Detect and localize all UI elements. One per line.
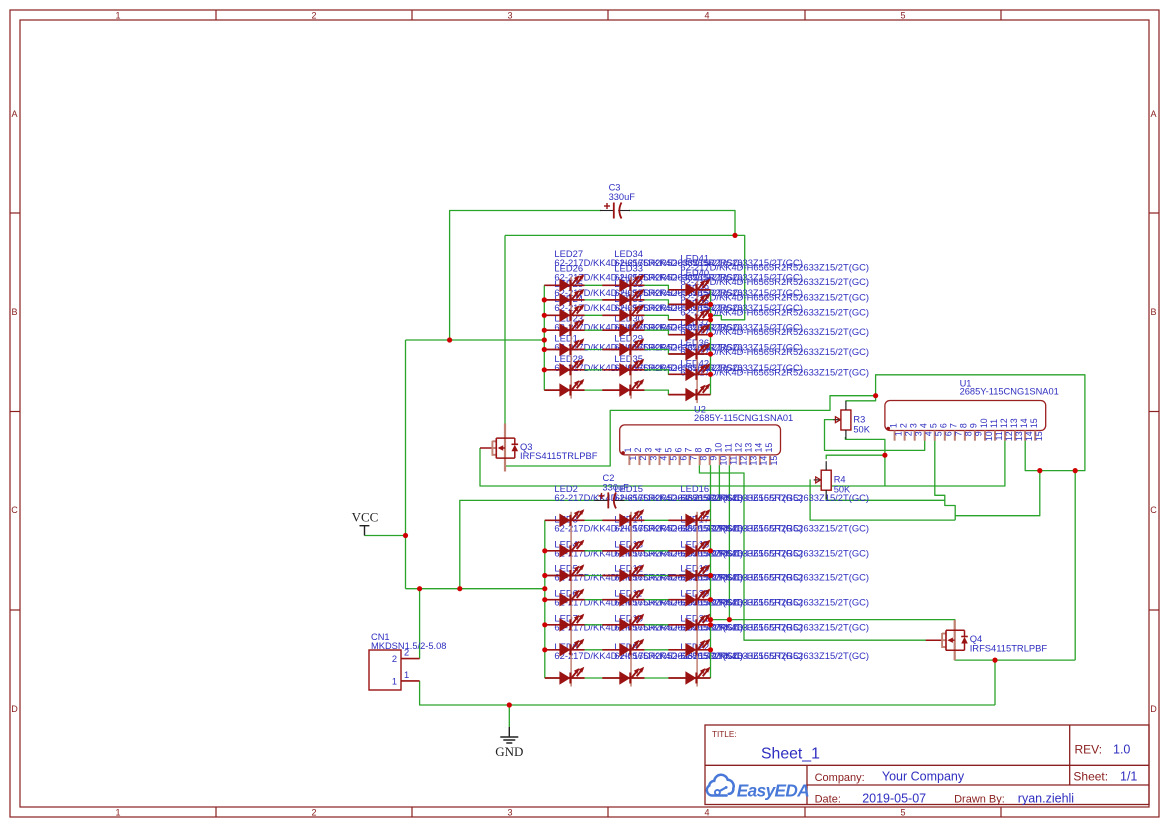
wire C2 right to U2 pin10	[622, 465, 720, 500]
resistor R4 top pin	[825, 461, 827, 470]
wire U1 pin14 rail	[876, 375, 1085, 471]
svg-text:8: 8	[693, 448, 703, 453]
LED pin wire	[668, 575, 710, 577]
LED pin wire	[668, 289, 710, 291]
svg-text:1: 1	[115, 808, 120, 818]
LED LED26 symbol	[559, 289, 584, 307]
svg-text:330uF: 330uF	[603, 483, 630, 493]
connector U2 body	[620, 425, 781, 455]
svg-text:6: 6	[944, 431, 954, 436]
junction top-left bus y=315.3	[542, 313, 547, 318]
pin 3 of U2	[643, 448, 658, 466]
LED pin wire	[602, 677, 644, 679]
frame tick bottom x=216	[215, 807, 217, 817]
svg-text:1: 1	[115, 11, 120, 21]
LED pin wire	[545, 599, 585, 601]
pin 2 of U2	[633, 448, 648, 466]
LED LED8 symbol	[559, 667, 584, 685]
pin 8 of U2	[693, 448, 708, 466]
svg-text:5: 5	[900, 11, 905, 21]
row wire	[545, 624, 711, 626]
wire C3 right to top-right corner	[629, 211, 735, 236]
LED pin wire	[545, 550, 585, 552]
svg-text:7: 7	[683, 448, 693, 453]
LED pin wire	[668, 519, 710, 521]
row wire	[544, 315, 710, 320]
row wire	[545, 677, 711, 679]
LED LED21 symbol	[685, 639, 710, 657]
junction Q4 drain rail at bottom bus	[708, 617, 713, 622]
LED LED5 symbol	[559, 589, 584, 607]
pin 10 of U1	[979, 418, 994, 441]
svg-text:1: 1	[893, 431, 903, 436]
svg-text:11: 11	[994, 431, 1004, 440]
wire C2 left to VCC rail	[460, 500, 599, 588]
LED pin wire	[668, 319, 710, 321]
right cathode bus	[710, 520, 712, 678]
wire R3 top to net	[845, 396, 875, 401]
LED LED31 symbol	[619, 319, 644, 337]
svg-text:ryan.ziehli: ryan.ziehli	[1018, 791, 1074, 805]
svg-text:VCC: VCC	[352, 510, 379, 525]
pin 4 of U1	[919, 423, 934, 441]
svg-text:4: 4	[653, 448, 663, 453]
LED pin wire	[668, 677, 710, 679]
junction top-left bus y=349.5	[542, 347, 547, 352]
LED pin wire	[544, 369, 584, 371]
svg-text:50K: 50K	[834, 485, 851, 495]
svg-text:EasyEDA: EasyEDA	[737, 781, 809, 801]
junction R3 top net	[873, 393, 878, 398]
LED LED22 symbol	[685, 667, 710, 685]
svg-text:Drawn By:: Drawn By:	[954, 793, 1005, 805]
LED LED14 symbol	[619, 540, 644, 558]
LED pin wire	[544, 314, 584, 316]
svg-text:13: 13	[749, 456, 759, 466]
frame tick bottom x=1001	[1000, 807, 1002, 817]
pin 14 of U2	[754, 443, 769, 466]
row wire	[545, 649, 711, 651]
LED LED2 symbol	[559, 509, 584, 527]
LED column pin line	[630, 277, 632, 399]
resistor R4 wiper arrow	[814, 479, 821, 481]
frame tick top x=805	[804, 10, 806, 20]
LED LED23 symbol	[559, 338, 584, 356]
pin 10 of U2	[714, 443, 729, 466]
svg-text:5: 5	[663, 448, 673, 453]
row wire	[545, 519, 711, 521]
frame tick right y=411.5	[1149, 411, 1159, 413]
title block outline	[705, 725, 1149, 805]
svg-text:6: 6	[678, 456, 688, 461]
LED pin wire	[544, 284, 584, 286]
svg-text:GND: GND	[495, 744, 523, 759]
svg-text:9: 9	[709, 456, 719, 461]
wire R3 bottom	[845, 437, 885, 486]
row wire	[544, 285, 710, 290]
svg-text:10: 10	[714, 443, 724, 453]
capacitor C3 pin wires	[600, 210, 613, 212]
LED LED37 symbol	[685, 343, 710, 361]
frame tick left y=411.5	[10, 411, 20, 413]
pin 11 of U1	[989, 419, 1004, 441]
svg-text:12: 12	[999, 418, 1009, 428]
svg-text:2019-05-07: 2019-05-07	[862, 791, 926, 805]
svg-text:3: 3	[507, 808, 512, 818]
connector U1 body	[885, 401, 1046, 431]
svg-text:9: 9	[969, 423, 979, 428]
svg-text:9: 9	[704, 448, 714, 453]
LED LED9 symbol	[619, 667, 644, 685]
svg-text:1: 1	[404, 670, 409, 680]
LED LED1 symbol	[559, 359, 584, 377]
wire CN1 pin1 to GND rail	[420, 681, 995, 705]
junction top-right bus y=354.0	[708, 351, 713, 356]
svg-text:14: 14	[1019, 418, 1029, 428]
LED pin wire	[668, 599, 710, 601]
frame tick top x=216	[215, 10, 217, 20]
LED pin wire	[668, 624, 710, 626]
svg-text:Date:: Date:	[815, 793, 841, 805]
LED LED10 symbol	[619, 639, 644, 657]
pin 5 of U2	[663, 448, 678, 466]
svg-text:15: 15	[1029, 418, 1039, 428]
svg-text:Sheet_1: Sheet_1	[761, 746, 820, 763]
LED pin wire	[602, 284, 644, 286]
svg-text:2: 2	[311, 808, 316, 818]
row wire	[545, 599, 711, 601]
svg-text:7: 7	[688, 456, 698, 461]
frame tick bottom x=805	[804, 807, 806, 817]
svg-text:1: 1	[888, 423, 898, 428]
svg-text:6: 6	[939, 423, 949, 428]
LED pin wire	[602, 519, 644, 521]
LED pin wire	[668, 353, 710, 355]
junction VCC feed at top bus	[542, 337, 547, 342]
LED LED4 symbol	[559, 564, 584, 582]
wire U1 pin5 stair	[935, 440, 955, 520]
svg-text:C3: C3	[609, 183, 621, 193]
svg-text:2: 2	[638, 456, 648, 461]
LED LED34 symbol	[619, 274, 644, 292]
junction bottom-right bus y=599.7	[708, 597, 713, 602]
LED pin wire	[545, 624, 585, 626]
pin 8 of U1	[959, 423, 974, 441]
frame tick bottom x=412	[411, 807, 413, 817]
row wire	[544, 350, 710, 355]
pin 7 of U1	[949, 423, 964, 441]
LED pin wire	[602, 299, 644, 301]
svg-text:13: 13	[1014, 431, 1024, 441]
wire Q3 source to top cathode bus	[505, 396, 876, 466]
wire R3 wiper to U1 pin4	[825, 420, 925, 451]
junction top-right bus y=334.7	[708, 332, 713, 337]
LED LED28 symbol	[559, 379, 584, 397]
wire right GND riser	[1074, 471, 1076, 660]
connector U1 pin1 mark	[887, 427, 891, 431]
row wire	[544, 300, 710, 305]
transistor Q3 symbol	[480, 424, 518, 472]
junction VCC feed at bottom bus	[542, 586, 547, 591]
LED LED25 symbol	[559, 304, 584, 322]
svg-text:11: 11	[724, 443, 734, 452]
LED LED32 symbol	[619, 304, 644, 322]
wire VCC feed to top LED bus	[406, 339, 545, 341]
pin 14 of U1	[1019, 418, 1034, 441]
pin 1 of U1	[888, 423, 903, 441]
svg-text:13: 13	[744, 443, 754, 453]
svg-text:1.0: 1.0	[1113, 742, 1130, 756]
svg-text:R4: R4	[834, 475, 846, 485]
junction bottom-right bus y=624.8	[708, 622, 713, 627]
frame tick top x=412	[411, 10, 413, 20]
pin 13 of U1	[1009, 418, 1024, 441]
wire U2 pin9 / bottom cathode bus upper	[710, 465, 712, 520]
pin 12 of U2	[734, 443, 749, 466]
wire Q4 drain rail	[711, 620, 955, 630]
frame tick top x=608	[607, 10, 609, 20]
junction VCC netflag tap	[403, 533, 408, 538]
wire U2 pin8 to Q4 gate	[699, 465, 941, 640]
svg-text:10: 10	[984, 431, 994, 441]
svg-text:1: 1	[392, 676, 397, 686]
junction CN1 pin2 riser	[417, 586, 422, 591]
LED LED16 symbol	[685, 509, 710, 527]
pin 2 of U1	[898, 423, 913, 441]
resistor R3 top pin	[845, 401, 847, 410]
svg-text:8: 8	[698, 456, 708, 461]
svg-text:A: A	[1150, 109, 1156, 119]
capacitor C3 curved plate	[619, 203, 621, 219]
svg-text:15: 15	[769, 456, 779, 466]
LED column pin line	[696, 281, 698, 403]
LED LED20 symbol	[685, 614, 710, 632]
junction top-right bus y=319.8	[708, 317, 713, 322]
junction C2 left riser	[457, 586, 462, 591]
junction bottom-left bus y=575.5	[542, 573, 547, 578]
LED LED27 symbol	[559, 274, 584, 292]
LED LED19 symbol	[685, 589, 710, 607]
LED LED36 symbol	[685, 363, 710, 381]
svg-text:2: 2	[633, 448, 643, 453]
LED pin wire	[602, 329, 644, 331]
row wire	[544, 370, 710, 375]
pin 13 of U2	[744, 443, 759, 466]
junction bottom-left bus y=624.8	[542, 622, 547, 627]
pin 15 of U1	[1029, 418, 1044, 441]
LED column pin line	[696, 512, 698, 687]
junction Q4 source riser	[1073, 468, 1078, 473]
resistor R3 body	[841, 410, 851, 430]
svg-text:7: 7	[954, 431, 964, 436]
capacitor C3 straight plate	[613, 203, 615, 219]
svg-text:Company:: Company:	[815, 772, 865, 784]
LED pin wire	[545, 649, 585, 651]
svg-text:3: 3	[648, 456, 658, 461]
LED LED39 symbol	[685, 309, 710, 327]
svg-text:MKDSN1.5/2-5.08: MKDSN1.5/2-5.08	[371, 641, 446, 651]
svg-text:D: D	[1150, 704, 1157, 714]
svg-text:Your Company: Your Company	[882, 769, 965, 783]
wire Q3 drain vertical	[504, 235, 506, 423]
wire VCC rail to bottom LED bus	[406, 588, 545, 590]
LED pin wire	[668, 373, 710, 375]
LED LED42 symbol	[685, 383, 710, 401]
svg-text:3: 3	[913, 431, 923, 436]
junction bottom-right bus y=575.5	[708, 573, 713, 578]
pin 15 of U2	[764, 443, 779, 466]
wire U2 pin11 to Q4 drain rail	[728, 465, 730, 619]
svg-text:4: 4	[924, 431, 934, 436]
frame tick left y=213	[10, 212, 20, 214]
row wire	[544, 390, 710, 395]
VCC net flag	[352, 510, 379, 536]
svg-text:8: 8	[959, 423, 969, 428]
frame tick right y=213	[1149, 212, 1159, 214]
svg-text:5: 5	[934, 431, 944, 436]
wire Q3 gate to U1 pin12 net	[480, 440, 1005, 486]
LED LED40 symbol	[685, 293, 710, 311]
LED LED38 symbol	[685, 324, 710, 342]
svg-text:11: 11	[989, 419, 999, 428]
junction bottom-left bus y=599.7	[542, 597, 547, 602]
svg-text:TITLE:: TITLE:	[712, 730, 737, 739]
LED pin wire	[602, 389, 644, 391]
capacitor C3 plus sign	[604, 205, 610, 207]
LED LED33 symbol	[619, 289, 644, 307]
LED pin wire	[545, 677, 585, 679]
LED pin wire	[602, 575, 644, 577]
wire pin5 net to right riser	[955, 471, 1040, 516]
junction bottom-left bus y=550.8	[542, 548, 547, 553]
LED LED11 symbol	[619, 614, 644, 632]
svg-text:C: C	[1150, 505, 1157, 515]
junction R4 top / R3 bottom net	[882, 453, 887, 458]
row wire	[545, 575, 711, 577]
svg-text:4: 4	[658, 456, 668, 461]
junction top-right bus y=304.4	[708, 302, 713, 307]
svg-text:2: 2	[903, 431, 913, 436]
junction top-left bus y=369.8	[542, 367, 547, 372]
wire GND rail right riser	[994, 660, 996, 705]
svg-text:10: 10	[979, 418, 989, 428]
pin 6 of U2	[673, 448, 688, 466]
row wire	[544, 330, 710, 335]
svg-text:8: 8	[964, 431, 974, 436]
junction bottom-right bus y=550.8	[708, 548, 713, 553]
svg-text:2: 2	[898, 423, 908, 428]
LED pin wire	[602, 369, 644, 371]
svg-text:5: 5	[900, 808, 905, 818]
LED LED3 symbol	[559, 540, 584, 558]
resistor R3 bottom pin	[845, 430, 847, 439]
capacitor C2 pin wires	[595, 499, 608, 501]
svg-text:4: 4	[704, 11, 709, 21]
connector CN1 body	[369, 650, 401, 690]
pin 9 of U2	[704, 448, 719, 466]
svg-text:2685Y-115CNG1SNA01: 2685Y-115CNG1SNA01	[694, 413, 793, 423]
GND symbol	[495, 727, 523, 759]
junction U1 pin5 net riser	[1037, 468, 1042, 473]
LED pin wire	[602, 599, 644, 601]
svg-text:1: 1	[628, 456, 638, 461]
svg-text:D: D	[11, 704, 18, 714]
left anode bus	[543, 285, 545, 390]
LED LED15 symbol	[619, 509, 644, 527]
wire R4 bottom rail	[826, 496, 945, 500]
resistor R4 body	[821, 470, 831, 490]
resistor R4 bottom pin	[825, 490, 827, 499]
frame tick right y=610	[1149, 609, 1159, 611]
svg-text:C: C	[11, 505, 18, 515]
svg-text:B: B	[1150, 307, 1156, 317]
svg-text:C2: C2	[603, 473, 615, 483]
title block rev cell divider	[1069, 725, 1071, 785]
LED LED18 symbol	[685, 564, 710, 582]
left anode bus	[544, 520, 546, 678]
svg-text:1/1: 1/1	[1120, 770, 1137, 784]
CN1 pin 1	[401, 680, 420, 682]
junction C3 left at VCC feed	[447, 337, 452, 342]
svg-text:9: 9	[974, 431, 984, 436]
LED pin wire	[602, 550, 644, 552]
LED LED41 symbol	[685, 279, 710, 297]
CN1 pin 2	[401, 658, 420, 660]
svg-text:REV:: REV:	[1075, 742, 1103, 756]
svg-text:3: 3	[643, 448, 653, 453]
svg-text:5: 5	[929, 423, 939, 428]
row wire	[545, 550, 711, 552]
pin 3 of U1	[908, 423, 923, 441]
right cathode bus	[710, 290, 712, 395]
pin 5 of U1	[929, 423, 944, 441]
svg-text:7: 7	[949, 423, 959, 428]
wire GND stub	[508, 705, 510, 727]
svg-text:12: 12	[734, 443, 744, 453]
LED pin wire	[668, 649, 710, 651]
svg-text:330uF: 330uF	[609, 192, 636, 202]
svg-text:5: 5	[668, 456, 678, 461]
pin 7 of U2	[683, 448, 698, 466]
svg-text:12: 12	[739, 456, 749, 466]
junction bottom-left bus y=649.8	[542, 647, 547, 652]
svg-text:14: 14	[1024, 431, 1034, 441]
svg-text:3: 3	[507, 11, 512, 21]
junction C3 branch at top-right bus	[708, 313, 713, 318]
wire R4 top	[826, 455, 885, 459]
LED column pin line	[570, 512, 572, 687]
pin 6 of U1	[939, 423, 954, 441]
wire CN1 pin2 to VCC rail	[419, 589, 421, 659]
frame tick left y=610	[10, 609, 20, 611]
frame tick bottom x=608	[607, 807, 609, 817]
wire Q3 drain rail y=235	[505, 235, 745, 319]
LED LED29 symbol	[619, 359, 644, 377]
title block row divider 1	[705, 764, 1149, 766]
title block logo cell divider	[806, 765, 808, 804]
wire VCC rail to C3 left	[450, 211, 601, 341]
junction top-right bus y=374.3	[708, 372, 713, 377]
svg-text:13: 13	[1009, 418, 1019, 428]
connector U2 pin1 mark	[621, 451, 625, 455]
LED pin wire	[602, 624, 644, 626]
svg-text:14: 14	[759, 456, 769, 466]
svg-text:62-217D/KK4D-H6565R2R52633Z15/: 62-217D/KK4D-H6565R2R52633Z15/2T(GC)	[680, 523, 869, 534]
LED LED12 symbol	[619, 589, 644, 607]
LED LED13 symbol	[619, 564, 644, 582]
svg-text:15: 15	[1034, 431, 1044, 441]
svg-text:Sheet:: Sheet:	[1073, 770, 1108, 784]
